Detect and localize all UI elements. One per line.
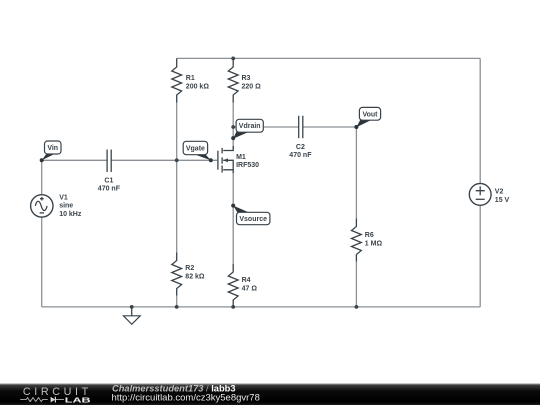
- wire C2 to Vout: [303, 126, 357, 128]
- wire C1 to gate: [111, 159, 217, 161]
- wire Vout to R6: [355, 127, 357, 219]
- svg-text:Vsource: Vsource: [239, 216, 267, 223]
- svg-text:R4: R4: [242, 277, 251, 284]
- junction top R3: [231, 57, 235, 61]
- svg-text:R6: R6: [365, 232, 374, 239]
- svg-text:C2: C2: [296, 144, 305, 151]
- svg-text:470 nF: 470 nF: [289, 152, 312, 159]
- wire Vdrain to C2: [233, 126, 299, 128]
- wire Vin to C1: [42, 159, 107, 161]
- junction Vout: [355, 125, 359, 129]
- svg-text:10 kHz: 10 kHz: [59, 211, 82, 218]
- wire V1 branch upper: [41, 160, 43, 195]
- footer logo squiggle resistor and diode: [20, 397, 64, 403]
- node Vgate tag: [183, 141, 213, 162]
- wire R6 to bottom rail: [355, 262, 357, 307]
- ground: [123, 307, 140, 324]
- svg-text:V1: V1: [59, 194, 68, 201]
- wire R3 to drain: [232, 103, 234, 151]
- junction R4 bottom: [231, 305, 235, 309]
- wire R1 to R2: [176, 103, 178, 253]
- svg-text:http://circuitlab.com/cz3ky5e8: http://circuitlab.com/cz3ky5e8gvr78: [112, 392, 260, 403]
- capacitor C1: [107, 150, 111, 173]
- wire V1 branch lower: [41, 217, 43, 307]
- junction R6 bottom: [355, 305, 359, 309]
- svg-text:R1: R1: [186, 75, 195, 82]
- svg-text:Vout: Vout: [362, 111, 378, 118]
- svg-text:R2: R2: [185, 265, 194, 272]
- voltage source V2: [469, 184, 491, 206]
- resistor R6: [352, 219, 362, 262]
- svg-text:Vgate: Vgate: [186, 146, 205, 153]
- junction ground: [130, 305, 134, 309]
- svg-text:IRF530: IRF530: [236, 162, 259, 169]
- svg-text:Vdrain: Vdrain: [239, 123, 261, 130]
- junction Vdrain: [231, 125, 235, 129]
- capacitor C2: [299, 116, 303, 139]
- wire top rail: [177, 57, 481, 59]
- svg-text:82 kΩ: 82 kΩ: [185, 273, 205, 280]
- resistor R3: [228, 58, 238, 102]
- junction R2 bottom: [175, 305, 179, 309]
- node Vsource tag: [231, 204, 270, 225]
- svg-text:V2: V2: [495, 189, 504, 196]
- svg-text:LAB: LAB: [65, 396, 92, 405]
- svg-text:470 nF: 470 nF: [98, 186, 121, 193]
- wire source to R4: [232, 172, 234, 264]
- svg-text:R3: R3: [242, 75, 251, 82]
- svg-text:15 V: 15 V: [495, 197, 510, 204]
- wire V2 branch lower: [479, 205, 481, 307]
- transistor M1 MOSFET: [218, 146, 233, 173]
- junction Vin R1R2: [175, 158, 179, 162]
- node Vin tag: [40, 141, 61, 162]
- svg-text:sine: sine: [59, 203, 73, 210]
- wire R2 to bottom rail: [176, 296, 178, 307]
- node Vdrain tag: [231, 119, 263, 140]
- svg-text:1 MΩ: 1 MΩ: [365, 241, 383, 248]
- svg-text:200 kΩ: 200 kΩ: [186, 83, 210, 90]
- footer bar: [0, 384, 540, 405]
- node Vout tag: [354, 107, 380, 129]
- svg-text:47 Ω: 47 Ω: [242, 285, 258, 292]
- voltage source V1 sine: [31, 195, 53, 217]
- resistor R2: [172, 253, 182, 296]
- wire V2 branch upper: [479, 58, 481, 183]
- wire bottom rail: [42, 306, 481, 308]
- svg-text:220 Ω: 220 Ω: [242, 83, 262, 90]
- resistor R4: [228, 264, 238, 307]
- svg-text:C1: C1: [104, 177, 113, 184]
- svg-text:Vin: Vin: [47, 145, 58, 152]
- resistor R1: [172, 58, 182, 102]
- svg-text:M1: M1: [236, 154, 246, 161]
